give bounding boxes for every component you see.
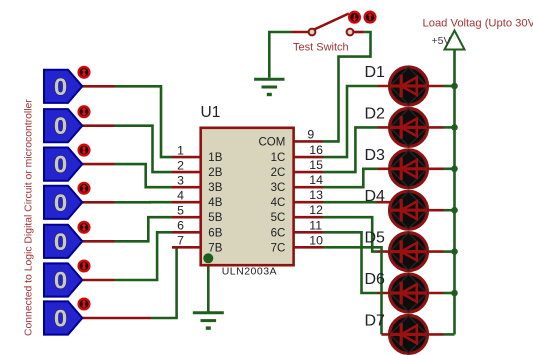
svg-text:3C: 3C bbox=[271, 182, 286, 194]
svg-text:Connected to Logic Digital Cir: Connected to Logic Digital Circuit or mi… bbox=[24, 99, 35, 336]
svg-text:0: 0 bbox=[54, 229, 67, 256]
svg-text:0: 0 bbox=[54, 152, 67, 179]
svg-text:13: 13 bbox=[309, 188, 323, 202]
svg-text:14: 14 bbox=[309, 173, 323, 187]
svg-text:Test Switch: Test Switch bbox=[293, 42, 349, 54]
svg-text:2: 2 bbox=[177, 159, 184, 173]
svg-text:5B: 5B bbox=[208, 212, 222, 224]
svg-text:COM: COM bbox=[258, 136, 285, 148]
svg-text:1C: 1C bbox=[271, 152, 286, 164]
svg-text:3: 3 bbox=[177, 174, 184, 188]
svg-text:3B: 3B bbox=[208, 182, 222, 194]
svg-text:D7: D7 bbox=[365, 312, 386, 329]
svg-text:D4: D4 bbox=[365, 188, 386, 205]
svg-text:15: 15 bbox=[309, 158, 323, 172]
svg-text:10: 10 bbox=[309, 233, 323, 247]
svg-text:0: 0 bbox=[54, 113, 67, 140]
svg-text:5: 5 bbox=[177, 204, 184, 218]
svg-text:ULN2003A: ULN2003A bbox=[222, 266, 277, 278]
svg-text:+5V: +5V bbox=[432, 35, 451, 47]
svg-text:11: 11 bbox=[309, 218, 322, 232]
svg-text:0: 0 bbox=[54, 190, 67, 217]
svg-text:D2: D2 bbox=[365, 105, 386, 122]
svg-text:4: 4 bbox=[177, 189, 184, 203]
svg-text:0: 0 bbox=[54, 74, 67, 101]
svg-text:1: 1 bbox=[177, 144, 184, 158]
svg-text:D3: D3 bbox=[365, 147, 386, 164]
svg-text:4B: 4B bbox=[208, 197, 222, 209]
svg-text:D1: D1 bbox=[365, 64, 386, 81]
svg-text:5C: 5C bbox=[271, 212, 286, 224]
svg-text:4C: 4C bbox=[271, 197, 286, 209]
svg-text:16: 16 bbox=[309, 143, 323, 157]
svg-text:7: 7 bbox=[177, 234, 184, 248]
svg-text:Load Voltag (Upto 30V: Load Voltag (Upto 30V bbox=[423, 18, 533, 30]
svg-text:U1: U1 bbox=[201, 104, 221, 121]
svg-text:1B: 1B bbox=[208, 152, 222, 164]
svg-text:9: 9 bbox=[307, 127, 314, 141]
svg-text:6B: 6B bbox=[208, 227, 222, 239]
svg-text:D6: D6 bbox=[365, 271, 386, 288]
svg-text:6C: 6C bbox=[271, 227, 286, 239]
svg-text:7B: 7B bbox=[208, 242, 222, 254]
svg-text:0: 0 bbox=[54, 306, 67, 333]
svg-text:7C: 7C bbox=[271, 242, 286, 254]
svg-text:2C: 2C bbox=[271, 167, 286, 179]
svg-text:0: 0 bbox=[54, 268, 67, 295]
svg-text:2B: 2B bbox=[208, 167, 222, 179]
svg-text:D5: D5 bbox=[365, 230, 386, 247]
svg-text:12: 12 bbox=[309, 203, 323, 217]
svg-text:6: 6 bbox=[177, 219, 184, 233]
